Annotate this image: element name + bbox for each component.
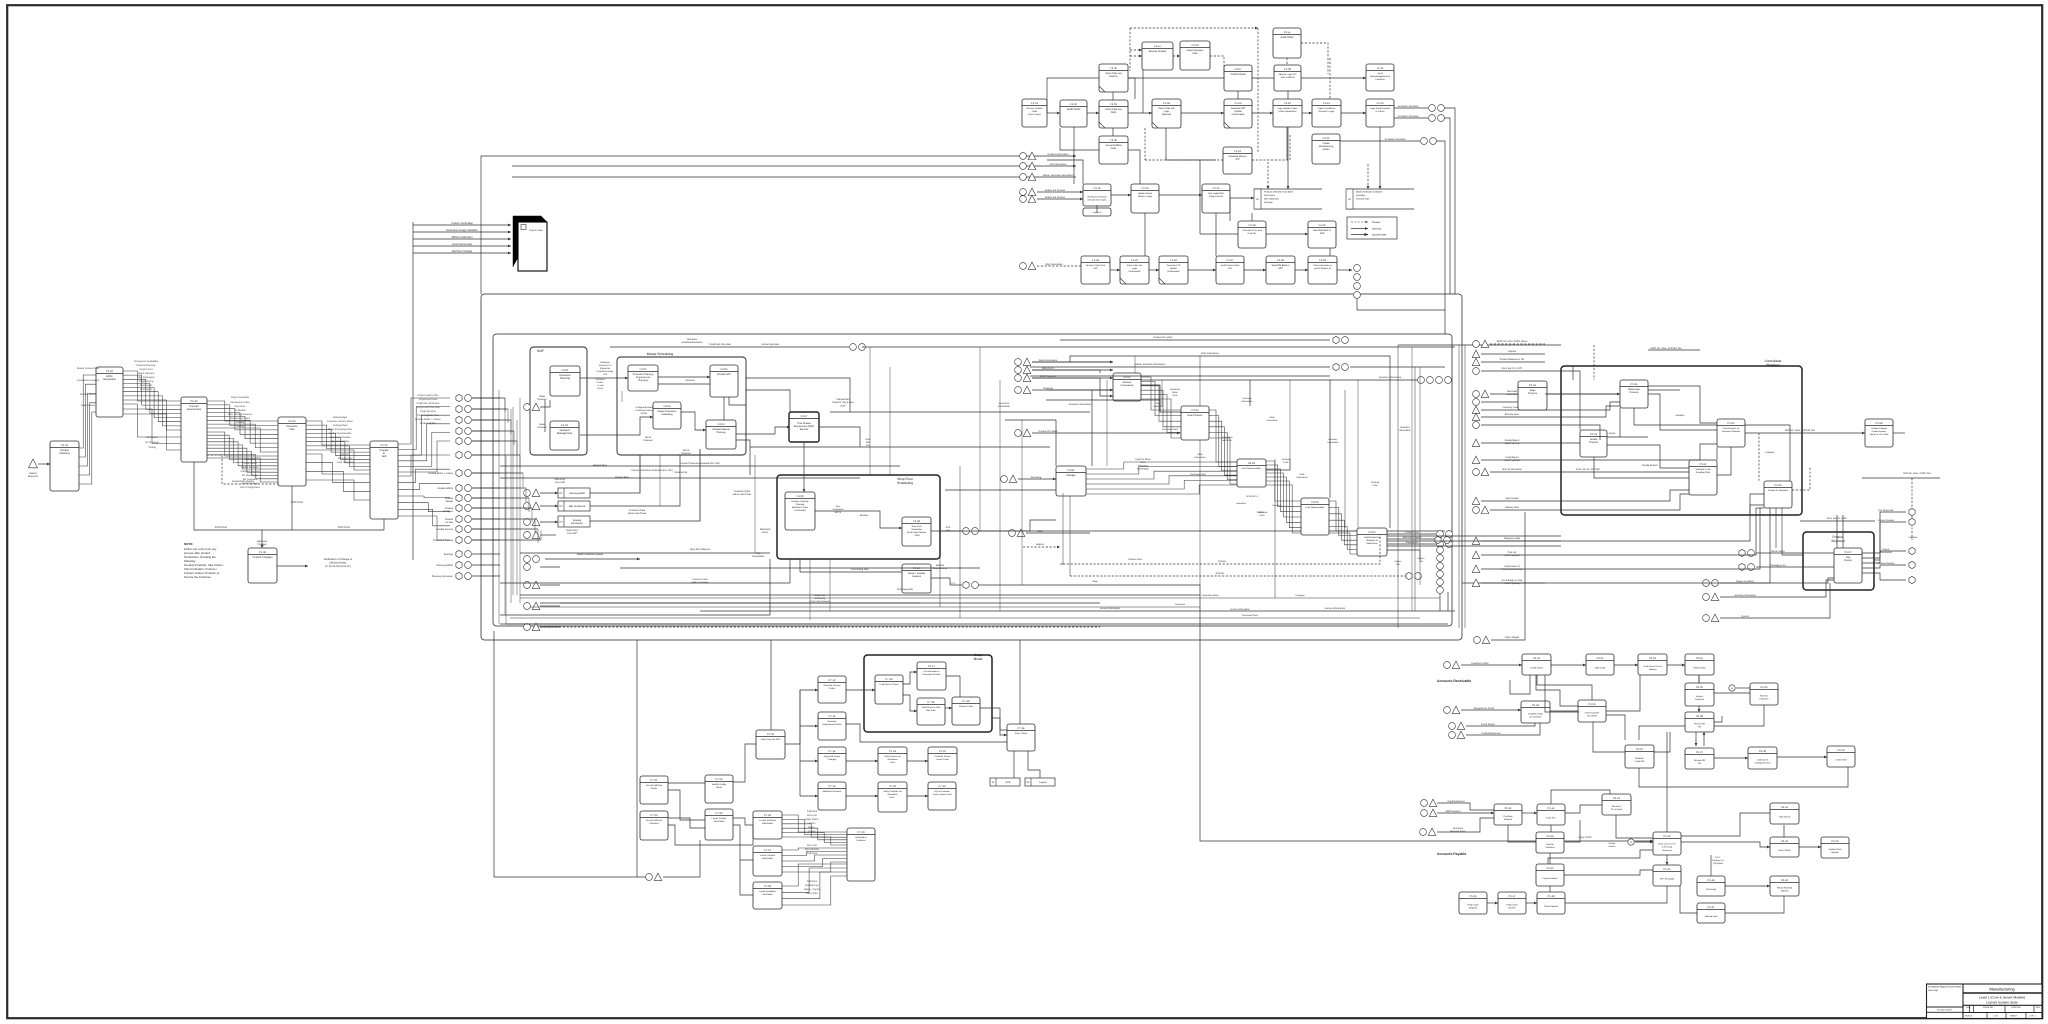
wire: [522, 473, 524, 487]
cluster Setup Model: [864, 653, 992, 732]
wire: [1648, 386, 1717, 423]
wire: [1550, 825, 1552, 832]
node triangle: [1028, 162, 1036, 169]
wire: [1141, 379, 1418, 381]
label Cmplt Lead Time Plan: [416, 406, 440, 409]
svg-text:Lit-final Ship date: Lit-final Ship date: [761, 343, 779, 346]
svg-text:PQA Member: PQA Member: [805, 848, 820, 851]
node hexagon: [1909, 561, 1915, 568]
svg-text:F3-09: F3-09: [913, 520, 920, 523]
svg-text:Orders: Orders: [1322, 148, 1330, 151]
label Drawings: [1043, 387, 1054, 390]
svg-text:(Automated): (Automated): [1232, 113, 1245, 116]
box F2-08: [1274, 65, 1301, 91]
svg-text:P7-14: P7-14: [889, 750, 896, 753]
svg-text:Work Instructions: Work Instructions: [1039, 359, 1058, 362]
wire: [1032, 432, 1060, 434]
svg-text:Kimball Care: Kimball Care: [805, 884, 819, 887]
svg-text:Target Pricing: Target Pricing: [139, 380, 154, 383]
label Key Items: [235, 405, 246, 408]
label Ship Information: [1045, 263, 1063, 266]
wire: [1698, 675, 1700, 683]
label Price List: [807, 814, 817, 817]
wire: [1128, 150, 1140, 184]
svg-text:F2-28: F2-28: [1277, 259, 1284, 262]
svg-text:F3-07: F3-07: [801, 415, 808, 418]
box F2-05: [1099, 64, 1128, 92]
svg-text:(Items) to SOS Sales: (Items) to SOS Sales: [1870, 433, 1889, 436]
svg-text:Customer: Customer: [1545, 846, 1555, 849]
wire: [1606, 675, 1640, 711]
wire: [733, 818, 753, 825]
svg-text:Storage: Storage: [1066, 474, 1076, 477]
svg-text:F2-18: F2-18: [1249, 224, 1256, 227]
svg-text:Update: Update: [1170, 267, 1178, 270]
label Order Entry: [566, 529, 579, 535]
label PO's: [951, 582, 957, 585]
label ATP Information: [1049, 163, 1067, 166]
wire: [1820, 578, 1834, 583]
wire: [472, 487, 500, 489]
node circle: [1438, 105, 1445, 112]
svg-text:F2-02: F2-02: [1070, 103, 1077, 106]
box P4-03: [1181, 406, 1209, 440]
wire: [512, 176, 1038, 178]
label Shop Floor: [810, 594, 831, 603]
label Current Production Schedule (F: [631, 469, 673, 472]
svg-text:Review: Review: [1508, 907, 1516, 910]
wire: [1781, 508, 1783, 555]
svg-text:+ Lead: + Lead: [597, 384, 605, 387]
wire: [1249, 380, 1251, 406]
svg-text:Inventory: Inventory: [1243, 397, 1253, 400]
svg-text:Generate Manual: Generate Manual: [1229, 155, 1247, 158]
wire bundle: [306, 421, 370, 470]
svg-text:Matl Prod Schedule: Matl Prod Schedule: [330, 436, 352, 439]
wire: [472, 408, 500, 410]
label SOR (M.O.): [1246, 495, 1258, 498]
svg-text:P1-04: P1-04: [289, 420, 296, 423]
wire: [1073, 127, 1075, 184]
box F3-04: [653, 402, 681, 429]
svg-text:Approved Dealer: Approved Dealer: [824, 755, 841, 758]
svg-text:Locate Technical: Locate Technical: [759, 819, 776, 822]
svg-text:Export: Export: [1883, 548, 1890, 551]
wire: [1526, 902, 1537, 904]
svg-text:Schedule Truck: Schedule Truck: [1695, 468, 1711, 471]
wire: [1302, 112, 1312, 114]
node hexagon: [456, 437, 462, 444]
svg-text:Accounts Receivable: Accounts Receivable: [1437, 679, 1471, 683]
node triangle: [1457, 722, 1465, 729]
wire: [1564, 870, 1653, 875]
label Ford, Sat, FL, KUP1&2: [1576, 468, 1600, 471]
wire: [1548, 850, 1653, 864]
label Production Design Validation: [446, 229, 479, 232]
label Finalize Molds + Cutters: [415, 418, 442, 421]
svg-text:Post to A/R: Post to A/R: [1694, 723, 1705, 726]
svg-text:Crate Products for: Crate Products for: [1723, 427, 1740, 430]
label Work: [1194, 453, 1206, 459]
title block: [1927, 984, 2043, 1019]
svg-text:(Machine Center: (Machine Center: [792, 506, 808, 509]
wire: [1414, 367, 1416, 611]
datastore D4: [558, 516, 590, 527]
wire bundle: [782, 815, 847, 845]
svg-text:Customer Order: Customer Order: [734, 490, 751, 493]
wire: [494, 631, 646, 877]
box P6-16: [1459, 892, 1487, 914]
wire: [472, 518, 500, 520]
node circle: [1415, 573, 1422, 580]
node triangle: [1452, 661, 1460, 668]
wire: [1549, 886, 1551, 892]
label Stop Number: [1505, 497, 1519, 500]
svg-text:P7-01: P7-01: [651, 779, 658, 782]
box P7-10: [818, 676, 846, 703]
svg-text:Hold Product for: Hold Product for: [1364, 536, 1380, 539]
label ECR Form: [291, 501, 303, 504]
svg-text:Request: Request: [1469, 907, 1478, 910]
label Happers: [1676, 414, 1686, 417]
svg-text:Allocate Logix ATP: Allocate Logix ATP: [1278, 73, 1297, 76]
box P6-06: [1750, 683, 1778, 705]
wire: [1390, 366, 1445, 368]
box F1-06: [1224, 99, 1252, 128]
label Master Product Plan: [77, 367, 99, 370]
svg-text:Receiving: Receiving: [1031, 476, 1042, 479]
wire: [1545, 508, 1764, 555]
wire: [663, 840, 700, 877]
svg-text:P6-09: P6-09: [1759, 750, 1766, 753]
wire: [512, 165, 1038, 167]
wire: [785, 690, 818, 744]
box F2-13: [1366, 99, 1394, 127]
label Develop Products, Take Orders,: [184, 563, 224, 567]
wire: [261, 530, 263, 548]
wire: [1545, 425, 1600, 440]
label Work Instructions: [1039, 359, 1058, 362]
svg-text:Bills of Material: Bills of Material: [569, 505, 586, 508]
node triangle: [1472, 358, 1480, 365]
box P6-0z: [1625, 745, 1654, 768]
wire: [681, 412, 706, 430]
label To Master Schedule: [1397, 115, 1419, 118]
svg-text:P5-07: P5-07: [1845, 551, 1852, 554]
svg-text:Send: Send: [1377, 72, 1383, 75]
svg-text:Acknowledgement to: Acknowledgement to: [1370, 75, 1391, 78]
svg-text:INOF, SC, Arlec, KUP1&2, Bar: INOF, SC, Arlec, KUP1&2, Bar: [1650, 347, 1681, 350]
svg-text:Shuttle: Shuttle: [1609, 432, 1617, 435]
datastore S1 product data: [1254, 189, 1322, 209]
wire: [1092, 390, 1113, 466]
wire: [1725, 885, 1770, 887]
wire: [1173, 55, 1180, 57]
label Shipping Labels: [1504, 537, 1521, 540]
svg-text:F2-12: F2-12: [1323, 102, 1330, 105]
wire: [590, 449, 700, 521]
node circle: [1473, 368, 1480, 375]
svg-text:A: A: [1630, 841, 1632, 844]
wire: [668, 782, 705, 784]
svg-text:QA Report: QA Report: [1713, 862, 1723, 865]
wire: [413, 238, 511, 240]
label Matl Sched Update: [1403, 536, 1422, 539]
label Finalize: [445, 497, 454, 503]
label Planning Information: [432, 575, 454, 578]
wire: [1134, 356, 1136, 373]
box F2-27: [1216, 256, 1244, 284]
svg-text:Invoice Information: Invoice Information: [1230, 608, 1250, 611]
svg-text:P1-02: P1-02: [106, 370, 113, 373]
wire bundle: [1209, 410, 1237, 484]
wire: [1639, 767, 1848, 787]
node triangle: [532, 502, 540, 509]
label Credit References: [1481, 732, 1501, 735]
wire: [1681, 813, 1770, 836]
label Order Processing Plan: [328, 428, 353, 431]
wire: [590, 455, 640, 493]
svg-text:Barcode Scan: Barcode Scan: [1505, 413, 1520, 416]
box P7-02: [640, 811, 668, 840]
svg-text:Data Entry: Data Entry: [555, 478, 567, 481]
wire: [1537, 675, 1592, 700]
wire: [1799, 846, 1821, 848]
label Bingo - Copics: [804, 888, 820, 891]
wire: [505, 455, 507, 624]
svg-text:Req.: Req.: [836, 505, 841, 508]
box F2-15: [1202, 184, 1230, 213]
wire: [545, 558, 640, 560]
wire bundle: [1086, 462, 1237, 494]
svg-text:Mail Team: Mail Team: [926, 709, 936, 712]
svg-text:MPNA Certification: MPNA Certification: [452, 236, 474, 239]
label Fabrication Metal: [1202, 594, 1219, 597]
wire: [799, 559, 801, 572]
wire: [1648, 349, 1700, 351]
label QA Plan: [341, 453, 350, 456]
node circle: [524, 519, 531, 526]
label Spec / Design Finance: [228, 413, 253, 416]
label Data Entry: [555, 478, 567, 484]
svg-text:Ship Information: Ship Information: [1045, 263, 1063, 266]
wire: [1714, 692, 1750, 694]
svg-text:1 of 1: 1 of 1: [1993, 1014, 1999, 1017]
svg-text:Project Cost: Project Cost: [139, 368, 152, 371]
label Costing: [236, 421, 245, 424]
wire: [1481, 540, 1545, 542]
svg-text:Match Invoice to P.O.: Match Invoice to P.O.: [1658, 843, 1676, 846]
svg-text:mins map: mins map: [1928, 989, 1939, 992]
node circle: [1748, 564, 1755, 571]
svg-text:Stop Number: Stop Number: [1505, 497, 1519, 500]
label Tooling: [236, 425, 244, 428]
datastore D1: [558, 488, 590, 498]
svg-text:Planning: Planning: [717, 431, 727, 434]
label Kimball Care: [805, 884, 819, 887]
wire: [1775, 508, 1777, 548]
svg-text:Issue P.O.: Issue P.O.: [1546, 817, 1556, 820]
box P6-08: [1685, 712, 1714, 732]
svg-text:SHEET: SHEET: [2010, 1014, 2018, 1017]
label Laminates: [1175, 603, 1186, 606]
svg-text:Orders: Orders: [829, 687, 837, 690]
svg-text:P6-20: P6-20: [1664, 835, 1671, 838]
svg-text:Parts: Parts: [762, 531, 768, 534]
wire: [540, 566, 560, 568]
wire: [1461, 664, 1522, 666]
svg-text:NCF-SC, Arlec, KUP1&2, Bor: NCF-SC, Arlec, KUP1&2, Bor: [1785, 429, 1815, 432]
node triangle: [532, 403, 540, 410]
box F3-03: [706, 420, 736, 449]
box P7-04: [705, 809, 733, 840]
node triangle: [1428, 828, 1436, 835]
svg-text:(Was Payload): (Was Payload): [1505, 459, 1520, 462]
svg-text:Sales Volumes: Sales Volumes: [138, 372, 155, 375]
svg-text:P4-01: P4-01: [1068, 469, 1075, 472]
svg-text:Information: Information: [1328, 441, 1340, 444]
node circle: [465, 562, 472, 569]
svg-text:(Capacity Led: (Capacity Led: [636, 376, 651, 379]
wire: [472, 454, 520, 456]
wire: [540, 605, 560, 607]
wire: [500, 582, 790, 584]
svg-text:Description of Order: Description of Order: [923, 673, 941, 676]
box F2-10: [1273, 99, 1302, 127]
wire: [1648, 389, 1680, 391]
svg-text:P7-10: P7-10: [829, 679, 836, 682]
label Bingo List (Arlec): [1736, 580, 1754, 583]
wire: [1545, 508, 1770, 583]
box P6-24: [1697, 876, 1725, 896]
svg-text:Tooling: Tooling: [148, 446, 156, 449]
svg-text:Information: Information: [571, 522, 584, 525]
node circle: [1473, 422, 1480, 429]
svg-text:Forecast: Forecast: [538, 426, 547, 429]
wire: [770, 640, 772, 730]
svg-text:Planning: Planning: [796, 503, 805, 506]
label Inventory: [1328, 438, 1340, 444]
box P7-05: [756, 730, 785, 759]
node circle: [1473, 507, 1480, 514]
label Routing Info: [675, 471, 688, 474]
wire: [1745, 425, 1790, 481]
node triangle: [532, 602, 540, 609]
node circle: [1354, 274, 1361, 281]
wire: [1648, 394, 1717, 430]
wire bundle: [123, 404, 181, 450]
node circle: [1015, 430, 1022, 437]
box P7-24: [1007, 724, 1035, 751]
wire: [999, 380, 1001, 611]
wire: [1545, 675, 1579, 712]
wire: [1037, 198, 1083, 200]
wire: [1893, 432, 1905, 434]
label Net of: [644, 436, 653, 442]
wire: [1545, 442, 1580, 444]
svg-text:F2-24: F2-24: [1092, 259, 1099, 262]
box P7-16: [875, 675, 903, 704]
wire: [1110, 269, 1120, 271]
node circle: [1420, 829, 1427, 836]
wire: [540, 505, 558, 507]
svg-text:Demand Data: Demand Data: [1356, 197, 1370, 200]
wire: [1565, 886, 1667, 903]
svg-text:Products: Products: [1589, 441, 1599, 444]
svg-text:Audit Order: Audit Order: [1067, 108, 1080, 111]
wire: [1199, 356, 1201, 585]
wire: [1018, 478, 1056, 480]
svg-text:Requirements: Requirements: [933, 567, 948, 570]
svg-text:Release Finished: Release Finished: [1871, 427, 1886, 430]
wire: [506, 623, 1448, 625]
svg-text:Master Scheduling: Master Scheduling: [647, 352, 674, 356]
wire: [1862, 477, 1940, 479]
wire: [769, 559, 771, 615]
svg-text:Q parts: Q parts: [1741, 615, 1749, 618]
wire: [746, 390, 790, 413]
node circle: [1421, 138, 1428, 145]
svg-text:Planning BOM's: Planning BOM's: [437, 564, 454, 567]
wire: [1337, 269, 1352, 271]
cluster Shop Floor Scheduling: [777, 475, 940, 559]
box P1-06: [248, 548, 277, 583]
node triangle: [1711, 593, 1719, 600]
label (On Time) Calc: [1878, 509, 1894, 512]
svg-text:Forecast: Forecast: [686, 379, 695, 382]
box P6-21: [1770, 803, 1799, 824]
svg-text:Product Master: Product Master: [80, 393, 96, 396]
node circle: [1354, 265, 1361, 272]
box P4-06: [1357, 528, 1387, 556]
svg-text:Warehouse Removes: Warehouse Removes: [1087, 196, 1106, 199]
node hexagon: [1406, 572, 1412, 579]
label Release Delivery: [1877, 562, 1895, 565]
wire: [1210, 56, 1224, 78]
wire: [1545, 490, 1689, 501]
svg-text:Dealer: Dealer: [651, 787, 658, 790]
box P7-23: [928, 782, 956, 810]
label Barcoded: [1506, 390, 1518, 396]
svg-text:Deliver the Product: Deliver the Product: [1045, 196, 1066, 199]
svg-text:F2-01: F2-01: [1031, 102, 1038, 105]
wire: [1111, 194, 1131, 196]
node circle: [1437, 587, 1444, 594]
svg-text:P5-01: P5-01: [1529, 384, 1536, 387]
label Planning BOM's: [437, 564, 454, 567]
label MPNA Certification: [452, 236, 474, 239]
svg-text:Shuttle: Shuttle: [1590, 438, 1598, 441]
svg-text:A: A: [1731, 687, 1733, 690]
svg-text:Logix: Logix: [1164, 110, 1170, 113]
wire: [1394, 117, 1428, 119]
box P6-03: [1578, 700, 1606, 722]
svg-text:Routings: Routings: [444, 553, 454, 556]
wire: [1481, 409, 1545, 411]
svg-text:Goods Inventory: Goods Inventory: [1872, 430, 1887, 433]
svg-text:Laminates: Laminates: [1236, 502, 1247, 505]
wire: [1606, 715, 1625, 740]
svg-text:Locate Product: Locate Product: [712, 817, 727, 820]
box P7-06: [753, 811, 782, 839]
label Inventory: [998, 402, 1011, 408]
wire: [472, 564, 500, 566]
wire: [472, 487, 526, 489]
svg-text:3D Models: 3D Models: [146, 436, 158, 439]
wire: [1862, 551, 1906, 563]
svg-text:Accept Call from: Accept Call from: [646, 819, 662, 822]
box P4-01: [1056, 466, 1086, 496]
